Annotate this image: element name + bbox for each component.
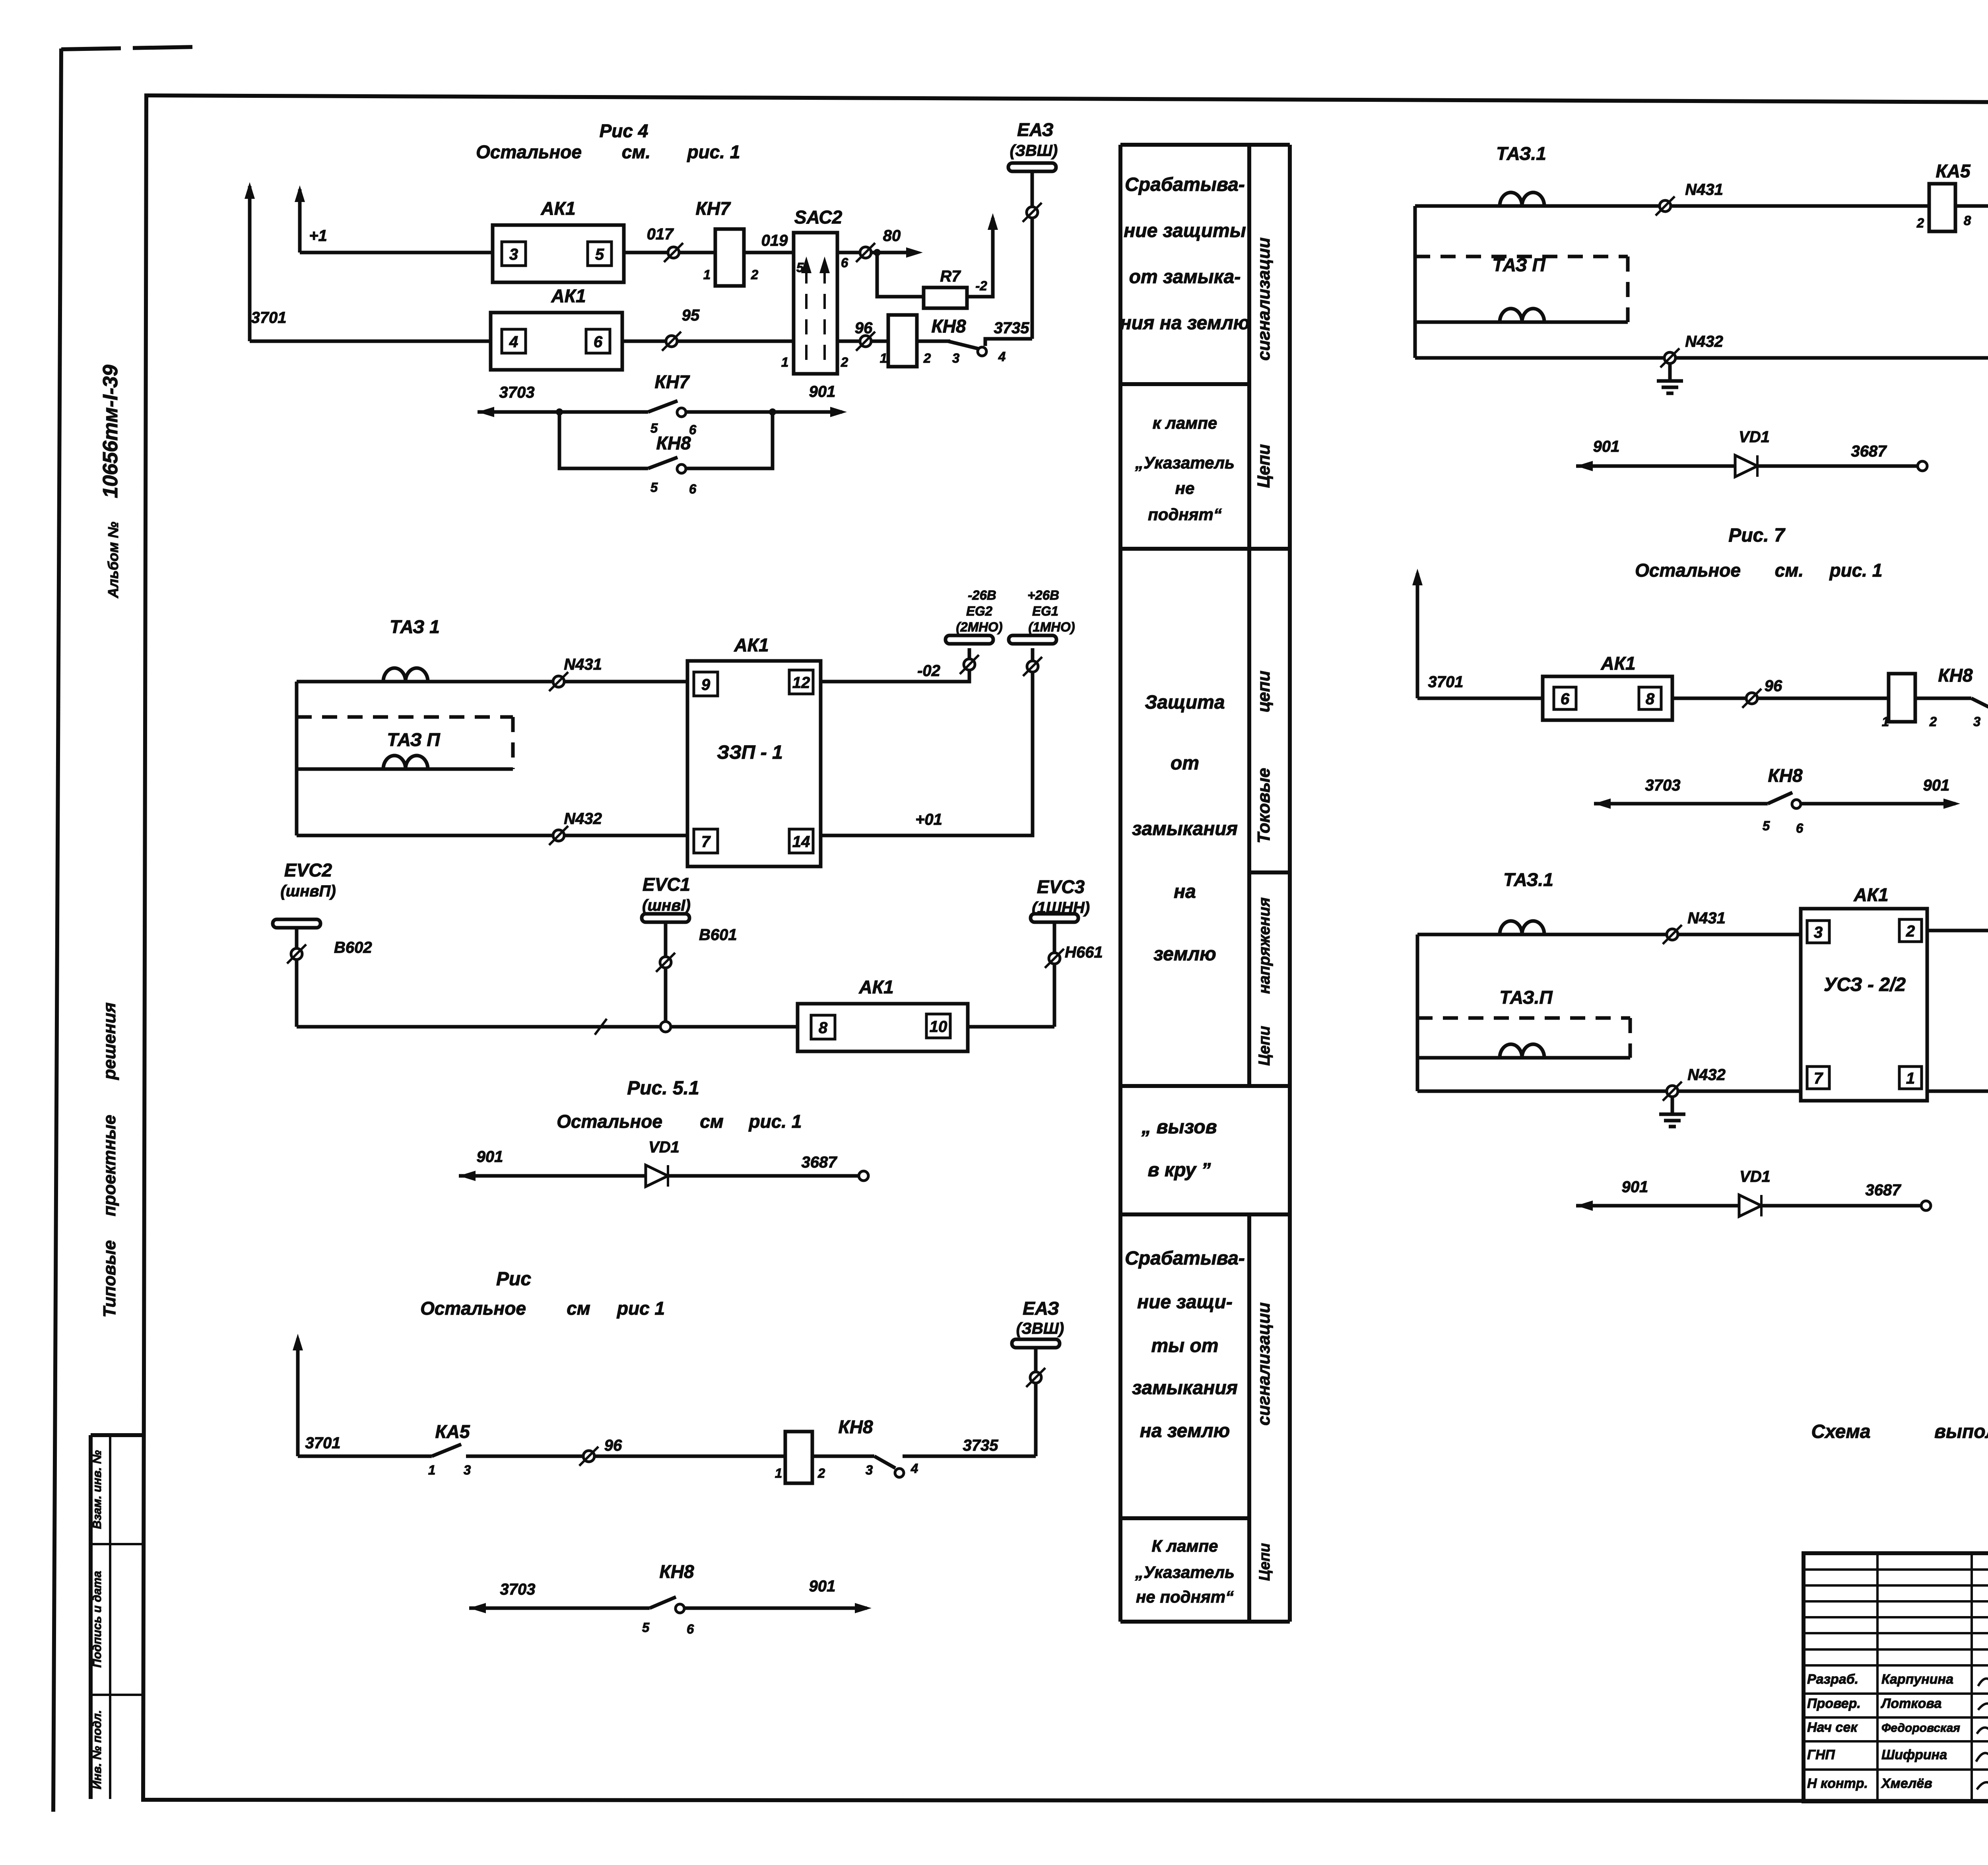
svg-text:проектные: проектные [100,1115,119,1216]
svg-text:3735: 3735 [963,1437,999,1454]
svg-text:-2: -2 [975,278,987,293]
svg-text:N432: N432 [564,810,602,828]
svg-text:Н661: Н661 [1065,944,1103,961]
svg-text:К лампе: К лампе [1151,1537,1218,1555]
svg-text:„ вызов: „ вызов [1141,1117,1217,1138]
svg-text:КН8: КН8 [838,1416,873,1437]
svg-text:N432: N432 [1687,1066,1726,1084]
svg-text:5: 5 [650,480,658,495]
svg-text:см.: см. [1775,560,1804,581]
svg-text:3701: 3701 [1428,673,1464,691]
svg-text:Подпись и дата: Подпись и дата [91,1571,104,1667]
svg-text:замыкания: замыкания [1132,1377,1238,1399]
svg-text:Провер.: Провер. [1807,1696,1861,1711]
svg-text:SАС2: SАС2 [794,207,843,227]
svg-text:выполнена: выполнена [1934,1421,1988,1442]
svg-text:4: 4 [911,1461,918,1476]
svg-text:АК1: АК1 [540,198,575,219]
svg-text:VD1: VD1 [1739,1168,1771,1185]
svg-text:в кру ”: в кру ” [1148,1160,1211,1181]
svg-text:Альбом №: Альбом № [105,522,121,598]
svg-text:Взам. инв. №: Взам. инв. № [91,1450,104,1529]
svg-text:1: 1 [1882,714,1889,729]
svg-text:N432: N432 [1685,333,1723,350]
svg-text:96: 96 [1765,677,1782,695]
svg-text:3687: 3687 [1866,1181,1902,1199]
svg-text:ЕG2: ЕG2 [966,604,993,618]
svg-text:КН8: КН8 [659,1561,694,1582]
svg-text:+1: +1 [309,227,327,245]
svg-text:2: 2 [751,267,759,282]
svg-text:+01: +01 [915,811,942,828]
svg-text:R7: R7 [940,268,961,285]
svg-text:ЕG1: ЕG1 [1032,604,1058,618]
svg-text:рис. 1: рис. 1 [687,142,740,162]
svg-text:N431: N431 [1687,909,1726,927]
svg-text:6: 6 [1561,690,1570,708]
svg-text:ЕVС3: ЕVС3 [1037,876,1085,897]
svg-text:7: 7 [701,833,711,851]
svg-text:Остальное: Остальное [476,142,582,162]
svg-text:Остальное: Остальное [1635,560,1741,581]
svg-text:1: 1 [880,351,887,365]
svg-text:Разраб.: Разраб. [1807,1672,1858,1687]
svg-text:1: 1 [428,1463,435,1477]
svg-text:019: 019 [761,232,788,249]
svg-text:цепи: цепи [1254,670,1274,712]
svg-text:7: 7 [1814,1070,1823,1087]
svg-text:АК1: АК1 [551,286,586,306]
svg-text:901: 901 [809,383,836,400]
svg-text:(шнвП): (шнвП) [280,882,336,900]
svg-text:N431: N431 [1685,181,1723,198]
svg-text:2: 2 [923,351,931,365]
svg-text:1: 1 [775,1466,782,1480]
svg-text:12: 12 [792,674,810,692]
svg-text:1: 1 [781,355,788,369]
svg-text:ние защи-: ние защи- [1137,1292,1233,1313]
svg-text:см: см [700,1111,724,1132]
svg-text:АК1: АК1 [1600,653,1635,674]
svg-text:(ЗВШ): (ЗВШ) [1016,1320,1064,1337]
svg-text:ты от: ты от [1151,1335,1218,1356]
svg-text:3703: 3703 [499,384,535,401]
svg-text:не поднят“: не поднят“ [1136,1587,1234,1606]
svg-text:КН8: КН8 [1938,665,1972,686]
svg-text:2: 2 [817,1466,825,1480]
svg-text:4: 4 [509,333,518,351]
svg-text:901: 901 [477,1148,503,1166]
svg-text:80: 80 [883,227,901,245]
svg-text:901: 901 [1593,438,1620,455]
svg-text:14: 14 [792,833,810,851]
svg-text:Рис. 7: Рис. 7 [1728,525,1786,546]
svg-text:-26В: -26В [968,588,996,602]
svg-text:Защита: Защита [1145,692,1225,713]
svg-text:3: 3 [866,1463,873,1477]
svg-text:N431: N431 [564,656,602,673]
svg-text:УСЗ - 2/2: УСЗ - 2/2 [1824,974,1906,995]
svg-text:напряжения: напряжения [1256,898,1273,994]
svg-text:2: 2 [1929,714,1937,729]
svg-text:-02: -02 [917,662,940,680]
svg-text:Н контр.: Н контр. [1807,1776,1868,1791]
svg-text:Остальное: Остальное [420,1298,526,1319]
svg-text:Цепи: Цепи [1256,1543,1273,1581]
svg-text:8: 8 [1646,690,1655,708]
svg-text:Рис. 5.1: Рис. 5.1 [627,1078,699,1099]
svg-text:сигнализации: сигнализации [1254,1302,1274,1426]
svg-text:+26В: +26В [1027,588,1059,602]
svg-text:от: от [1171,753,1199,774]
svg-text:АК1: АК1 [1853,884,1888,905]
svg-text:(2МНО): (2МНО) [956,620,1002,634]
svg-text:6: 6 [1796,821,1804,835]
svg-text:КА5: КА5 [1936,161,1971,181]
svg-text:6: 6 [594,333,603,351]
svg-text:КН8: КН8 [656,433,691,453]
svg-text:3735: 3735 [994,319,1030,337]
svg-text:„Указатель: „Указатель [1135,1563,1235,1581]
svg-text:ГНП: ГНП [1807,1747,1835,1762]
svg-text:5: 5 [595,246,604,263]
svg-text:на: на [1174,881,1196,902]
svg-text:ЕVС1: ЕVС1 [643,874,690,895]
svg-text:к лампе: к лампе [1153,414,1217,432]
svg-text:рис. 1: рис. 1 [1829,560,1883,581]
svg-text:В601: В601 [699,926,737,944]
svg-text:ТАЗ П: ТАЗ П [1492,254,1545,275]
svg-text:ния на землю: ния на землю [1120,313,1250,334]
svg-text:2: 2 [841,355,848,369]
svg-text:„Указатель: „Указатель [1135,453,1235,472]
svg-text:96: 96 [604,1437,622,1454]
svg-text:от замыка-: от замыка- [1129,266,1241,288]
svg-text:Федоровская: Федоровская [1881,1721,1960,1735]
svg-text:901: 901 [809,1577,836,1595]
svg-text:3701: 3701 [305,1434,341,1452]
svg-text:КН8: КН8 [1768,765,1802,786]
svg-text:5: 5 [642,1620,650,1635]
svg-text:5: 5 [796,260,804,275]
svg-text:Токовые: Токовые [1254,768,1274,843]
svg-text:(шнвI): (шнвI) [642,897,691,914]
svg-text:Типовые: Типовые [100,1240,119,1317]
svg-text:см.: см. [622,142,650,162]
svg-text:КН7: КН7 [695,198,731,219]
svg-text:Шифрина: Шифрина [1881,1747,1947,1762]
svg-text:2: 2 [1906,923,1915,940]
svg-text:В602: В602 [334,939,372,956]
svg-text:см: см [567,1298,590,1319]
svg-text:рис 1: рис 1 [616,1298,665,1319]
svg-text:3687: 3687 [802,1154,838,1171]
svg-text:8: 8 [1964,213,1971,228]
svg-text:3: 3 [1973,714,1980,729]
svg-text:901: 901 [1923,777,1950,794]
svg-text:3687: 3687 [1851,443,1887,460]
svg-text:ТАЗ П: ТАЗ П [387,729,440,750]
svg-text:VD1: VD1 [648,1138,679,1156]
svg-text:6: 6 [689,482,697,496]
svg-text:1: 1 [1906,1070,1915,1087]
svg-text:3: 3 [509,246,518,263]
svg-text:сигнализации: сигнализации [1254,237,1274,361]
svg-text:Нач сек: Нач сек [1807,1720,1858,1735]
svg-text:017: 017 [647,225,674,243]
svg-text:КН7: КН7 [654,371,690,392]
svg-text:КА5: КА5 [435,1421,470,1442]
svg-text:3: 3 [1814,924,1823,941]
svg-text:9: 9 [701,676,711,694]
svg-text:ТАЗ.П: ТАЗ.П [1499,987,1553,1008]
svg-text:землю: землю [1153,944,1216,965]
svg-text:рис. 1: рис. 1 [748,1111,802,1132]
svg-text:10656тм-I-39: 10656тм-I-39 [99,365,122,498]
svg-text:4: 4 [998,349,1006,364]
svg-text:решения: решения [100,1002,119,1080]
svg-text:КН8: КН8 [931,316,966,336]
svg-text:Остальное: Остальное [557,1111,662,1132]
svg-text:3703: 3703 [1645,777,1681,794]
svg-text:(ЗВШ): (ЗВШ) [1010,142,1058,159]
svg-text:Хмелёв: Хмелёв [1881,1776,1932,1791]
svg-text:Рис: Рис [496,1269,531,1290]
svg-text:2: 2 [1916,216,1924,230]
svg-text:3: 3 [952,351,959,365]
svg-text:АК1: АК1 [858,977,893,997]
svg-text:1: 1 [703,267,711,282]
svg-text:поднят“: поднят“ [1148,505,1222,524]
svg-text:ТАЗ.1: ТАЗ.1 [1496,143,1546,164]
svg-text:VD1: VD1 [1739,428,1770,446]
svg-text:ЗЗП - 1: ЗЗП - 1 [717,742,783,763]
svg-text:Срабатыва-: Срабатыва- [1125,1248,1245,1269]
svg-text:3701: 3701 [251,309,287,326]
svg-text:Инв. № подл.: Инв. № подл. [91,1710,104,1789]
svg-text:Срабатыва-: Срабатыва- [1125,174,1245,195]
svg-text:ние защиты: ние защиты [1124,220,1246,241]
svg-text:96: 96 [855,319,873,337]
svg-text:5: 5 [1763,818,1770,833]
svg-text:Цепи: Цепи [1254,444,1274,488]
svg-text:3: 3 [464,1463,471,1477]
svg-text:на землю: на землю [1140,1420,1230,1441]
svg-text:ТАЗ.1: ТАЗ.1 [1503,869,1553,890]
svg-text:95: 95 [682,307,700,324]
svg-text:ЕАЗ: ЕАЗ [1017,119,1054,140]
svg-text:(1МНО): (1МНО) [1028,620,1075,634]
svg-text:не: не [1175,479,1195,497]
svg-text:ТАЗ 1: ТАЗ 1 [390,616,440,637]
svg-text:6: 6 [841,255,848,270]
svg-text:ЕVС2: ЕVС2 [284,860,332,880]
svg-text:10: 10 [930,1018,947,1035]
svg-text:ЕАЗ: ЕАЗ [1023,1298,1059,1319]
svg-text:901: 901 [1622,1178,1648,1196]
svg-text:Лоткова: Лоткова [1880,1696,1941,1711]
svg-text:6: 6 [687,1622,694,1636]
svg-text:Карпунина: Карпунина [1881,1672,1953,1687]
svg-text:АК1: АК1 [734,635,769,655]
svg-text:замыкания: замыкания [1132,818,1238,839]
svg-text:Рис 4: Рис 4 [600,120,648,141]
svg-text:Цепи: Цепи [1256,1026,1273,1066]
svg-text:Схема: Схема [1811,1421,1870,1442]
svg-text:3703: 3703 [500,1581,536,1598]
svg-text:8: 8 [819,1019,828,1037]
